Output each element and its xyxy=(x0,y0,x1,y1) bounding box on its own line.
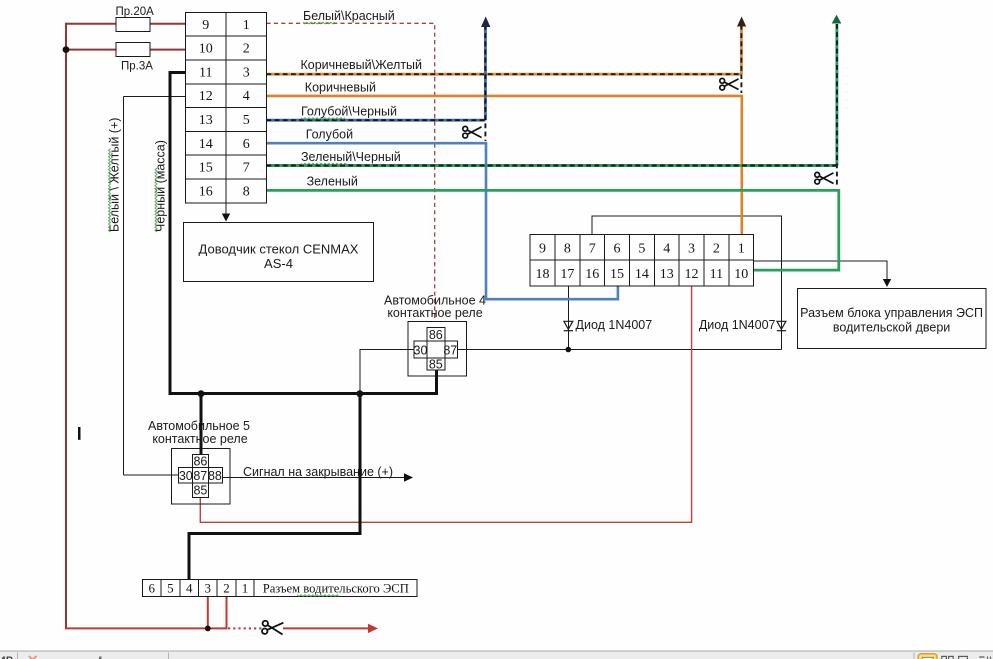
svg-text:13: 13 xyxy=(660,267,674,282)
svg-text:Зеленый\Черный: Зеленый\Черный xyxy=(301,150,401,164)
svg-text:Разъем водительского ЭСП: Разъем водительского ЭСП xyxy=(263,582,409,596)
svg-text:30: 30 xyxy=(179,469,193,483)
svg-text:Диод 1N4007: Диод 1N4007 xyxy=(576,318,653,332)
svg-text:17: 17 xyxy=(560,267,574,282)
svg-text:1: 1 xyxy=(738,241,745,256)
svg-text:9: 9 xyxy=(202,18,209,33)
svg-text:Зеленый: Зеленый xyxy=(307,175,358,189)
svg-text:Пр.20А: Пр.20А xyxy=(116,6,155,18)
svg-text:3: 3 xyxy=(688,241,695,256)
svg-text:15: 15 xyxy=(199,161,213,176)
svg-text:85: 85 xyxy=(193,483,207,497)
svg-text:5: 5 xyxy=(243,113,250,128)
svg-text:86: 86 xyxy=(429,328,443,342)
svg-text:88: 88 xyxy=(208,469,222,483)
svg-text:12: 12 xyxy=(685,267,699,282)
svg-text:1: 1 xyxy=(243,18,250,33)
svg-text:4Р: 4Р xyxy=(0,655,13,659)
svg-text:16: 16 xyxy=(199,184,213,199)
svg-text:30: 30 xyxy=(414,343,428,357)
svg-text:10: 10 xyxy=(734,267,748,282)
svg-text:6: 6 xyxy=(614,241,621,256)
svg-text:11: 11 xyxy=(199,65,212,80)
svg-text:8: 8 xyxy=(564,241,571,256)
svg-text:6: 6 xyxy=(243,137,250,152)
svg-text:3: 3 xyxy=(205,581,212,596)
svg-text:Сигнал на закрывание (+): Сигнал на закрывание (+) xyxy=(243,465,393,479)
svg-text:Автомобильное 4: Автомобильное 4 xyxy=(384,293,486,307)
svg-text:7: 7 xyxy=(243,161,250,176)
svg-text:1: 1 xyxy=(242,581,249,596)
svg-text:9: 9 xyxy=(539,241,546,256)
svg-text:13: 13 xyxy=(199,113,213,128)
svg-text:Разъем блока управления ЭСП: Разъем блока управления ЭСП xyxy=(800,306,983,320)
svg-text:AS-4: AS-4 xyxy=(264,256,293,271)
svg-text:5: 5 xyxy=(638,241,645,256)
svg-text:Коричневый: Коричневый xyxy=(305,81,376,95)
svg-text:Доводчик стекол CENMAX: Доводчик стекол CENMAX xyxy=(199,242,359,257)
svg-text:Белый\Красный: Белый\Красный xyxy=(303,9,395,23)
svg-text:3: 3 xyxy=(243,65,250,80)
svg-text:8: 8 xyxy=(243,184,250,199)
svg-text:2: 2 xyxy=(223,581,230,596)
svg-text:Голубой\Черный: Голубой\Черный xyxy=(301,105,397,119)
svg-text:85: 85 xyxy=(429,357,443,371)
svg-text:Коричневый\Желтый: Коричневый\Желтый xyxy=(301,58,423,72)
svg-text:контактное реле: контактное реле xyxy=(152,432,247,446)
svg-text:водительской двери: водительской двери xyxy=(833,321,950,335)
svg-text:4: 4 xyxy=(663,241,670,256)
svg-text:Диод 1N4007: Диод 1N4007 xyxy=(699,318,776,332)
svg-text:4: 4 xyxy=(243,89,250,104)
svg-text:контактное реле: контактное реле xyxy=(387,306,482,320)
svg-text:11: 11 xyxy=(710,267,723,282)
svg-text:86: 86 xyxy=(193,454,207,468)
svg-text:15: 15 xyxy=(610,267,624,282)
svg-text:6: 6 xyxy=(148,581,155,596)
svg-text:5: 5 xyxy=(167,581,174,596)
svg-text:Пр.3А: Пр.3А xyxy=(121,61,153,73)
svg-text:87: 87 xyxy=(193,469,207,483)
svg-text:16: 16 xyxy=(585,267,599,282)
svg-text:2: 2 xyxy=(713,241,720,256)
svg-text:7: 7 xyxy=(589,241,596,256)
svg-text:18: 18 xyxy=(536,267,550,282)
svg-text:10: 10 xyxy=(199,42,213,57)
svg-text:Голубой: Голубой xyxy=(306,128,353,142)
svg-text:4: 4 xyxy=(186,581,193,596)
svg-text:14: 14 xyxy=(199,137,213,152)
svg-text:12: 12 xyxy=(199,89,213,104)
svg-text:87: 87 xyxy=(443,343,457,357)
svg-text:14: 14 xyxy=(635,267,649,282)
svg-text:2: 2 xyxy=(243,42,250,57)
